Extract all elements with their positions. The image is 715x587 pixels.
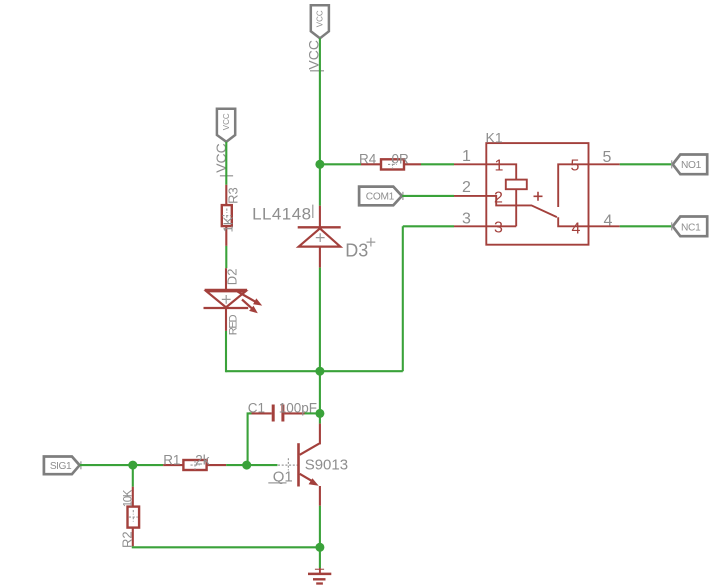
wire D2 cathode to bus	[225, 331, 227, 372]
D2 origin cross	[222, 295, 231, 304]
svg-text:LL4148: LL4148	[252, 205, 311, 224]
svg-text:D2: D2	[224, 269, 239, 286]
svg-text:S9013: S9013	[305, 457, 348, 474]
relay internal NO contact	[558, 164, 588, 207]
svg-text:D3: D3	[345, 240, 368, 260]
relay internal wire pin3	[486, 225, 516, 227]
ground GND	[308, 568, 331, 584]
relay internal NC contact	[558, 217, 588, 226]
svg-text:R3: R3	[225, 187, 240, 204]
wire junction down to D3	[319, 164, 321, 205]
Q1 name dash	[268, 482, 286, 484]
node junction VCC/R4/D3	[315, 160, 324, 169]
net label VCC (left)	[213, 143, 233, 176]
relay pin 1 wire	[454, 163, 486, 165]
svg-text:1: 1	[495, 158, 504, 175]
node junction base/C1	[242, 461, 251, 470]
wire D3 anode down to bus	[319, 268, 321, 372]
wire pin5 to NO1	[620, 163, 673, 165]
collector	[300, 444, 320, 455]
wire R2 top	[132, 465, 134, 487]
resistor R4	[361, 159, 421, 169]
resistor R2	[128, 487, 140, 547]
wire relay pin3 run left	[403, 225, 454, 227]
D3 name cross	[367, 238, 376, 247]
wire pin3 branch down	[402, 226, 404, 371]
flag NC1	[672, 217, 708, 237]
wire junction to R4	[320, 163, 361, 165]
D3 origin cross inside triangle	[316, 233, 325, 242]
emitter	[300, 474, 314, 482]
wire ground stem	[319, 547, 321, 568]
relay pin 4 wire	[589, 225, 620, 227]
value text tick	[312, 205, 314, 218]
flag NO1	[672, 155, 708, 175]
svg-text:0R: 0R	[392, 151, 410, 166]
base bar	[297, 443, 300, 486]
relay pin 5 wire	[589, 163, 620, 165]
wire bus to C1 junction	[319, 371, 321, 423]
wire SIG1 to R1	[80, 464, 163, 466]
base origin cross	[278, 458, 298, 470]
wire R3 to D2	[225, 246, 227, 268]
wire middle horizontal bus	[226, 370, 403, 372]
svg-text:5: 5	[571, 157, 580, 174]
relay K1 box	[486, 143, 588, 245]
wire bottom row	[133, 546, 320, 547]
wire VCC2 stem	[225, 142, 227, 185]
resistor R1	[163, 460, 226, 470]
svg-text:10K: 10K	[123, 489, 135, 507]
relay internal common arm	[486, 196, 557, 217]
supply VCC P+1 (top shield)	[311, 5, 329, 38]
diode D3	[298, 206, 341, 268]
wire COM1 to relay pin2	[402, 195, 454, 197]
svg-text:K1: K1	[486, 130, 503, 146]
svg-text:3: 3	[494, 220, 503, 237]
svg-text:3: 3	[462, 211, 471, 228]
flag SIG1	[44, 457, 81, 475]
supply VCC P+2 (left shield)	[217, 109, 235, 142]
svg-text:VCC: VCC	[316, 10, 325, 27]
relay pin 2 wire	[454, 195, 486, 197]
svg-text:5: 5	[603, 149, 612, 166]
svg-text:2: 2	[462, 179, 471, 196]
relay pin 3 wire	[454, 225, 486, 227]
svg-text:RED: RED	[227, 315, 239, 336]
wire VCC stem to junction	[319, 38, 321, 164]
svg-text:R1: R1	[163, 453, 180, 468]
wire C1 right to junction	[305, 412, 320, 414]
svg-text:2k: 2k	[195, 453, 210, 468]
svg-text:1K: 1K	[221, 216, 236, 232]
svg-text:R2: R2	[120, 531, 135, 548]
wire R4 to relay pin1	[421, 163, 454, 165]
svg-text:4: 4	[604, 212, 613, 229]
transistor Q1	[278, 424, 320, 506]
wire C1 left elbow down to base	[248, 413, 252, 465]
svg-text:NO1: NO1	[681, 160, 702, 171]
node junction SIG1/R2	[128, 461, 137, 470]
node junction emitter/ground	[315, 543, 324, 552]
relay plus mark	[534, 192, 543, 201]
LED arrow 2	[242, 300, 252, 309]
svg-text:R4: R4	[359, 151, 377, 166]
node junction C1/collector	[315, 409, 324, 418]
relay internal wire pin1 to coil	[486, 164, 516, 179]
flag COM1	[359, 187, 403, 206]
svg-text:VCC: VCC	[222, 113, 231, 130]
LED arrow 1	[238, 292, 256, 302]
capacitor C1	[249, 405, 305, 422]
svg-text:SIG1: SIG1	[50, 461, 72, 472]
net label VCC (top)	[306, 40, 324, 71]
svg-text:NC1: NC1	[681, 222, 701, 233]
svg-text:1: 1	[462, 148, 471, 165]
relay coil	[506, 180, 527, 190]
LED D2	[204, 268, 263, 331]
wire R1 to base node	[226, 464, 277, 466]
resistor R3	[222, 185, 232, 246]
svg-text:COM1: COM1	[366, 191, 395, 202]
wire pin4 to NC1	[620, 225, 673, 227]
relay internal wire coil to pin3	[515, 189, 517, 226]
svg-text:4: 4	[572, 221, 581, 238]
wire emitter down	[319, 506, 321, 548]
node junction mid bus	[315, 367, 324, 376]
